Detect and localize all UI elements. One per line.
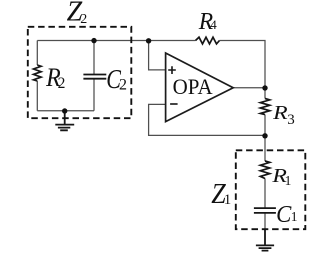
svg-text:1: 1	[224, 192, 232, 208]
svg-text:3: 3	[287, 112, 295, 128]
svg-text:C: C	[276, 201, 292, 228]
svg-text:2: 2	[80, 12, 87, 27]
svg-text:1: 1	[285, 173, 292, 188]
svg-text:2: 2	[119, 76, 127, 93]
svg-text:R: R	[272, 102, 288, 124]
svg-text:4: 4	[210, 17, 217, 32]
svg-text:1: 1	[291, 209, 298, 224]
svg-text:OPA: OPA	[173, 74, 213, 99]
svg-text:2: 2	[58, 75, 66, 92]
